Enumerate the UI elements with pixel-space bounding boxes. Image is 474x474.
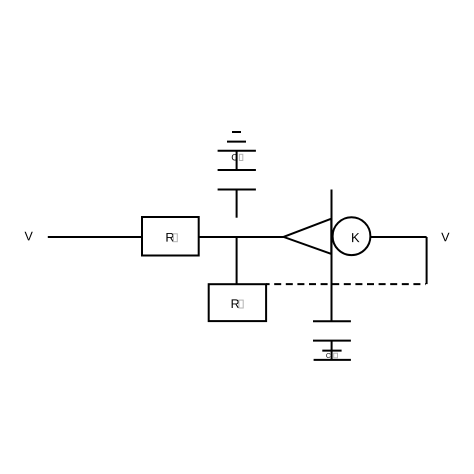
capacitor C2 <box>313 321 351 360</box>
resistor R1 <box>142 217 199 256</box>
wire node to R2 <box>236 237 238 284</box>
wire input <box>48 236 142 238</box>
wire feedback dashed <box>266 283 426 285</box>
wire C1 down stub <box>236 190 238 218</box>
wire R1 to amplifier <box>199 236 284 238</box>
wire K to output corner <box>370 236 426 238</box>
wire output down <box>426 237 428 284</box>
op-amp triangle <box>284 219 332 254</box>
wire vertical bus <box>331 190 333 322</box>
ground top <box>218 132 256 170</box>
resistor R2 <box>209 284 266 321</box>
node V input label <box>25 232 33 241</box>
capacitor C1 <box>218 154 256 190</box>
multiplier K <box>333 217 371 255</box>
ground bottom <box>314 351 351 360</box>
node V output label <box>441 233 449 242</box>
